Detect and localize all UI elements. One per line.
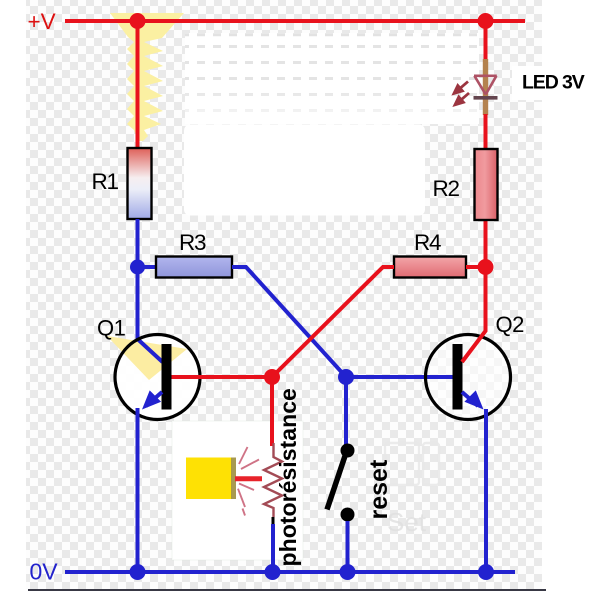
- photoresistor lamp: [186, 458, 232, 500]
- wire R2 to node D: [484, 220, 488, 267]
- transistor Q2 body fill: [426, 335, 511, 420]
- node C: [338, 369, 354, 385]
- node B: [264, 369, 280, 385]
- photoresistor LDR: [264, 443, 282, 517]
- Q1 emitter: [146, 392, 162, 406]
- wire node C to reset switch: [344, 377, 348, 447]
- node 0V 3: [340, 564, 356, 580]
- resistor R3: [156, 257, 232, 278]
- svg-text:photorésistance: photorésistance: [275, 388, 301, 567]
- node 0V 4: [478, 564, 494, 580]
- watermark box: [385, 443, 419, 485]
- LED lead anode: [483, 59, 488, 115]
- svg-text:reset: reset: [365, 459, 393, 519]
- lamp beam stub: [235, 476, 262, 481]
- LED D1: [474, 76, 497, 95]
- svg-text:+V: +V: [28, 9, 56, 34]
- svg-text:Q1: Q1: [97, 316, 126, 341]
- wire R4 to node B (crosses blue): [272, 267, 394, 377]
- svg-text:0V: 0V: [30, 559, 59, 585]
- switch reset lever: [327, 453, 346, 510]
- svg-text:Q2: Q2: [496, 312, 525, 337]
- wire node A to Q1 base: [138, 267, 163, 362]
- svg-text:R3: R3: [179, 230, 206, 255]
- transistor Q2: [426, 335, 511, 420]
- LDR bottom tick: [272, 517, 275, 524]
- wire Q1 collector to node B: [172, 375, 273, 379]
- glow beam at +V node: [110, 13, 184, 141]
- glow at Q1: [115, 335, 200, 420]
- wire node B to photoresistor: [270, 377, 274, 446]
- wire LED to R2: [484, 114, 488, 150]
- resistor R4: [394, 257, 466, 278]
- node A: [130, 260, 145, 275]
- LED D1 wire top: [484, 21, 488, 60]
- +V rail wire: [65, 19, 525, 23]
- resistor R2: [475, 149, 498, 220]
- svg-text:R1: R1: [92, 169, 119, 194]
- svg-text:R4: R4: [414, 230, 441, 255]
- wire Q2 emitter to 0V: [484, 409, 488, 572]
- lamp rays: [238, 447, 259, 516]
- node D: [478, 259, 494, 275]
- wire LDR to 0V: [271, 524, 275, 572]
- wire node A to R3: [138, 265, 157, 269]
- resistor R1: [128, 148, 152, 219]
- wire node D to Q2 collector: [462, 267, 486, 362]
- wire R4 to node D: [466, 265, 486, 269]
- svg-text:R2: R2: [433, 176, 460, 201]
- node +V left: [130, 13, 146, 29]
- wire +V to R1: [136, 21, 140, 150]
- wire reset to 0V: [346, 521, 350, 572]
- node 0V 2: [265, 564, 281, 580]
- node 0V 1: [130, 564, 146, 580]
- switch reset contact top: [341, 444, 355, 458]
- wire Q1 emitter to 0V: [136, 408, 140, 572]
- wire node C to Q2 base: [346, 375, 453, 379]
- wire R1 to node A: [136, 219, 140, 267]
- transistor Q1: [115, 335, 200, 420]
- bottom rule: [28, 589, 546, 591]
- 0V rail wire: [65, 570, 515, 574]
- svg-text:LED 3V: LED 3V: [522, 72, 585, 94]
- wire R3 to node C (crosses red): [232, 267, 346, 377]
- Q2 emitter: [462, 392, 478, 406]
- switch reset contact bottom: [341, 508, 355, 522]
- node +V right: [478, 13, 494, 29]
- LED emission arrows: [454, 82, 469, 105]
